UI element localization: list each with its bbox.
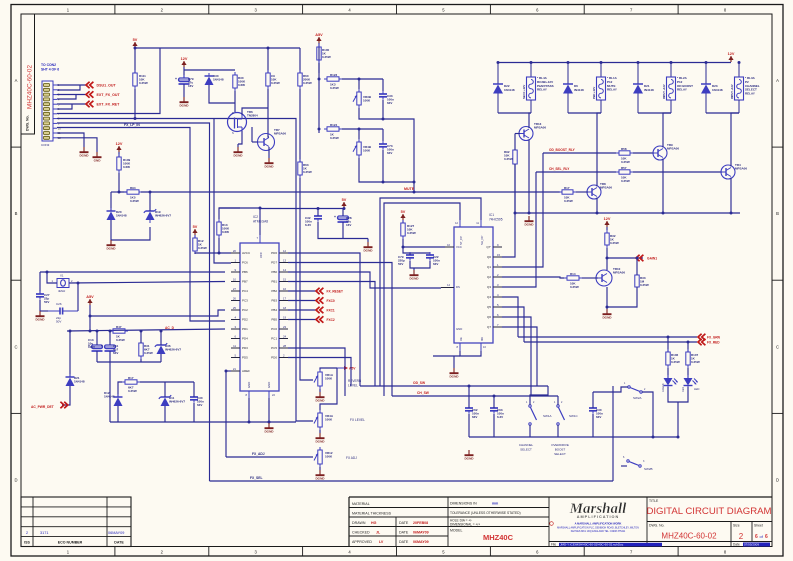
trimmer VR4B 100K — [353, 139, 372, 158]
svg-text:OE: OE — [459, 337, 463, 341]
wire C33 top — [382, 79, 384, 91]
power 5V at R12 — [192, 225, 197, 235]
resistor R58 — [616, 147, 633, 164]
svg-text:A: A — [15, 78, 18, 83]
wire CON3 bus to IC2 PC6 — [214, 119, 231, 264]
wire R111 to bus — [134, 89, 136, 119]
svg-text:FX_SEL: FX_SEL — [250, 476, 262, 480]
wire CON3 pin7 to bus riser — [57, 48, 160, 114]
resistor R92 — [504, 147, 517, 167]
label FX LEVEL — [350, 418, 365, 422]
port GAIN1 — [636, 255, 657, 261]
wire 5V to R12 — [194, 235, 196, 238]
svg-text:ISS: ISS — [24, 541, 30, 545]
svg-text:1N4148: 1N4148 — [213, 77, 224, 81]
junction relay bus — [670, 61, 673, 64]
relay RL1A with diode D6 — [563, 63, 618, 114]
svg-text:SW2A: SW2A — [633, 396, 642, 400]
power 5V at IC1 — [400, 210, 405, 220]
power A5V at AC detect — [86, 295, 94, 305]
svg-text:MPSA06: MPSA06 — [274, 131, 286, 135]
svg-text:A5V: A5V — [86, 295, 94, 299]
diode D20 1N4148 — [107, 208, 127, 223]
wire emitter ground bus — [515, 212, 740, 214]
wire R106 to LED1 — [667, 368, 669, 378]
wire C30b bottom — [592, 414, 594, 437]
svg-text:100K: 100K — [363, 98, 371, 102]
svg-text:SW2B: SW2B — [644, 467, 653, 471]
LED LED1 green — [662, 375, 678, 392]
wire R30 bottom to TR6 gate — [234, 91, 236, 112]
junction emitter bus — [528, 212, 531, 215]
wire C26 to gnd node — [40, 310, 48, 312]
svg-text:DWG. No.: DWG. No. — [26, 115, 30, 131]
connector CON3 (12-way) — [42, 81, 61, 141]
diode D21 1N4148 — [66, 374, 85, 389]
svg-text:PB1: PB1 — [271, 280, 277, 284]
svg-text:0.25W: 0.25W — [130, 199, 139, 203]
ground DGND at IC2 decoupling — [363, 242, 373, 253]
wire CON3 pin12 to GND — [57, 138, 97, 152]
svg-text:0.25W: 0.25W — [144, 351, 153, 355]
svg-text:0.25W: 0.25W — [303, 170, 312, 174]
port AC_PWR_DET — [31, 402, 68, 409]
svg-text:PD4: PD4 — [242, 337, 248, 341]
capacitor C28 47u — [334, 213, 352, 227]
ground DGND below VR12 — [315, 470, 325, 481]
ground DGND below IC1 — [449, 368, 459, 379]
ground DGND at emitter bus — [524, 216, 534, 227]
junction emitter bus — [662, 212, 665, 215]
svg-text:PED +12V: PED +12V — [592, 87, 596, 99]
svg-text:1N4148: 1N4148 — [504, 88, 515, 92]
svg-text:Q4: Q4 — [487, 295, 491, 299]
svg-text:20: 20 — [233, 249, 237, 253]
junction VR4B top — [358, 128, 361, 131]
svg-text:Q6: Q6 — [487, 315, 491, 319]
svg-text:14: 14 — [283, 268, 287, 272]
wire R33 top — [636, 258, 638, 275]
svg-text:18: 18 — [283, 306, 287, 310]
resistor R124 — [324, 123, 342, 140]
svg-text:DGND: DGND — [315, 440, 325, 444]
label CON3 — [41, 143, 50, 147]
junction relay bus — [637, 61, 640, 64]
junction R94 out — [149, 191, 152, 194]
wire caps gnd rail — [410, 261, 430, 268]
svg-text:63V: 63V — [387, 101, 392, 105]
wire VCC rail to caps — [260, 208, 344, 210]
junction A5V node R123 — [318, 78, 321, 81]
wire GAIN1 wire — [607, 257, 643, 259]
wire C63 bottom — [493, 414, 495, 437]
transistor TR4 MPSA06 — [721, 163, 747, 179]
svg-text:DGND: DGND — [464, 457, 474, 461]
svg-text:0.25W: 0.25W — [691, 360, 700, 364]
svg-text:50V: 50V — [56, 319, 61, 323]
transistor TR6 TN2804 — [228, 110, 259, 135]
net label FX_ADJ — [252, 452, 265, 456]
svg-text:VCC: VCC — [456, 245, 462, 249]
svg-text:DIMENSIONS IN: DIMENSIONS IN — [450, 502, 477, 506]
svg-text:+: + — [334, 215, 336, 219]
wire C11 bottom — [109, 351, 111, 362]
svg-text:AC_D: AC_D — [165, 326, 175, 330]
svg-text:06MAY09: 06MAY09 — [413, 540, 429, 544]
zener D19 IN4626-6V7 — [144, 208, 172, 223]
svg-text:Date: Date — [733, 543, 740, 547]
svg-text:3171: 3171 — [40, 531, 48, 535]
svg-text:GND: GND — [247, 382, 251, 388]
svg-text:IN4148: IN4148 — [644, 88, 654, 92]
svg-text:SW1C: SW1C — [569, 414, 579, 418]
svg-text:SELECT: SELECT — [520, 448, 532, 452]
svg-text:DATE: DATE — [114, 541, 124, 545]
capacitor C73 — [379, 141, 394, 155]
power 12V mid-left — [116, 142, 123, 152]
wire R17 to TR8 base — [576, 191, 588, 193]
wire TR6 drain up — [242, 108, 268, 115]
wire OD_BOOST line — [543, 152, 616, 154]
svg-text:MUTE: MUTE — [404, 187, 415, 191]
power 5V at IC2 decoupling — [341, 198, 346, 208]
net label CH_SEL_RLY — [549, 167, 570, 171]
svg-text:Q7: Q7 — [487, 325, 491, 329]
wire R17a left — [118, 382, 122, 397]
wire VR4A top — [320, 368, 337, 410]
wire long link PD5 — [288, 358, 351, 387]
wire SW2A riser — [612, 386, 614, 481]
svg-text:AMPLIFICATION: AMPLIFICATION — [577, 515, 619, 519]
svg-text:TITLE: TITLE — [649, 499, 659, 503]
wire SW2A right — [642, 392, 653, 437]
wire LED commons — [668, 387, 688, 402]
svg-text:IN4626-6V7: IN4626-6V7 — [165, 347, 181, 351]
svg-text:R57: R57 — [621, 166, 627, 170]
trimmer VR1A 100K — [314, 369, 334, 389]
svg-text:SELECT: SELECT — [554, 452, 566, 456]
resistor R123 — [324, 73, 342, 90]
capacitor C30b 100n — [589, 405, 603, 419]
wire IC2 GND pin8 drop — [248, 398, 250, 422]
svg-text:C26: C26 — [56, 302, 62, 306]
resistor R17 — [559, 186, 576, 203]
wire C28 top — [342, 209, 344, 217]
wire TR10 emitter — [606, 287, 608, 309]
junction R111 bus — [134, 117, 137, 120]
wire AREF stub — [226, 370, 231, 372]
wire CH_SW line — [392, 395, 558, 397]
relay RL2A with diode D21b — [633, 63, 693, 114]
wire A5V port riser — [320, 368, 337, 370]
svg-text:EXT_FX_RET: EXT_FX_RET — [97, 103, 121, 107]
svg-text:AC_PWR_DET: AC_PWR_DET — [31, 405, 54, 409]
svg-text:63V: 63V — [472, 415, 477, 419]
junction relay bus — [705, 61, 708, 64]
svg-text:DATE: DATE — [399, 540, 409, 544]
net label FX_SEL — [250, 476, 262, 480]
svg-text:0.6W: 0.6W — [123, 165, 130, 169]
wire R100 to R123/R124 node — [318, 63, 320, 133]
svg-text:FX ADJ: FX ADJ — [346, 456, 357, 460]
svg-text:PB0: PB0 — [271, 270, 277, 274]
capacitor C11 4u7 — [101, 342, 119, 355]
capacitor C79 47u 16V — [175, 75, 194, 88]
junction filter/MUTE — [413, 191, 416, 194]
svg-text:100K: 100K — [325, 376, 333, 380]
junction AC_D C13 — [96, 330, 99, 333]
relay RL3A with diode D23 — [701, 63, 760, 114]
svg-text:MATERIAL THICKNESS: MATERIAL THICKNESS — [352, 512, 392, 516]
zener D36 IN4626 — [155, 342, 182, 357]
svg-text:0.25W: 0.25W — [116, 338, 125, 342]
svg-text:26: 26 — [233, 297, 237, 301]
wire D20 to DGND rail — [111, 220, 150, 240]
wire caps to DGND — [413, 268, 415, 270]
wire TR13 collector to RL4A — [529, 113, 531, 128]
wire D12 bottom — [117, 406, 119, 422]
svg-text:R123: R123 — [330, 73, 338, 77]
wire LED1 feed — [667, 337, 669, 352]
svg-text:5V: 5V — [193, 225, 198, 229]
wire TR7 base — [252, 141, 258, 143]
junction AC_D R31 — [140, 330, 143, 333]
svg-text:24: 24 — [283, 335, 287, 339]
svg-text:SECO +12V: SECO +12V — [522, 85, 526, 99]
wire C30a bottom — [193, 403, 195, 422]
svg-text:FX LEVEL: FX LEVEL — [350, 418, 365, 422]
label FX ADJ — [346, 456, 357, 460]
wire C28 bottom — [342, 222, 344, 239]
junction 5V cap rail — [343, 207, 346, 210]
ground DGND below VR1A — [315, 392, 325, 403]
ground DGND at switch bus — [464, 450, 474, 461]
svg-text:06MAY09: 06MAY09 — [108, 531, 124, 535]
svg-text:IN4148: IN4148 — [574, 88, 584, 92]
wire R14 to TR10 base — [582, 277, 598, 279]
svg-text:DS: DS — [456, 285, 460, 289]
wire IC1 latch up-left — [380, 198, 481, 386]
switch SW2A — [624, 382, 646, 400]
resistor R14 — [564, 272, 582, 289]
svg-text:DIMENSIONAL = +/+: DIMENSIONAL = +/+ — [450, 523, 480, 527]
wire Q7 route to OD_SW — [502, 327, 537, 386]
ground DGND below TR6 — [233, 147, 243, 158]
ground DGND below C79 — [179, 97, 189, 108]
svg-text:SW1A: SW1A — [543, 414, 552, 418]
wire R127 to VCC — [403, 239, 445, 247]
wire caps bottom rail — [318, 222, 368, 239]
svg-text:B: B — [15, 211, 18, 216]
svg-text:RED: RED — [682, 387, 685, 392]
svg-text:PD5: PD5 — [242, 356, 248, 360]
ground DGND below CON3 — [79, 147, 89, 158]
wire IC1 OE/MR join — [460, 351, 481, 356]
svg-text:PB3: PB3 — [271, 299, 277, 303]
svg-text:28: 28 — [283, 344, 287, 348]
svg-text:27: 27 — [233, 287, 237, 291]
junction AC_D D36 — [160, 330, 163, 333]
wire TR7 emitter down — [268, 147, 270, 158]
wire C62 top — [468, 386, 470, 408]
svg-text:DGND: DGND — [524, 223, 534, 227]
junction AC_D/D21 — [69, 330, 72, 333]
svg-text:+: + — [101, 344, 103, 348]
svg-text:LED: LED — [694, 387, 699, 391]
wire R9 to TR7 collector — [268, 89, 269, 137]
svg-text:0.25W: 0.25W — [570, 285, 579, 289]
resistor R63 — [298, 159, 312, 178]
wire VR12 to DGND — [319, 467, 321, 470]
wire C30b link — [593, 391, 613, 393]
junction AC_D C11 — [109, 330, 112, 333]
wire TR9 emitter — [662, 159, 664, 214]
svg-text:DGND: DGND — [409, 277, 419, 281]
port FXC1 — [316, 307, 335, 313]
wire TR9 collector to RL2A — [663, 113, 671, 148]
svg-text:DGND: DGND — [79, 154, 89, 158]
svg-text:+: + — [175, 77, 177, 81]
wire top rail to R9 — [267, 48, 269, 73]
port FX_GRN — [698, 334, 721, 340]
net label CH_SW — [417, 391, 430, 395]
transistor TR8 MPSA06 — [587, 182, 612, 199]
svg-text:PC2: PC2 — [242, 308, 248, 312]
junction CH_SW/C63 — [493, 395, 496, 398]
wire CON3 pin5 to EXT_FX_RET port — [57, 103, 86, 105]
wire D21 to AC_PWR_DET — [62, 386, 70, 405]
svg-text:DSU1_OUT: DSU1_OUT — [97, 84, 117, 88]
svg-text:INPUT +12V: INPUT +12V — [730, 84, 734, 99]
wire D20 riser — [110, 192, 112, 211]
wire R31 bottom — [140, 359, 142, 362]
resistor R100 — [317, 44, 331, 63]
svg-text:MPSA06: MPSA06 — [735, 166, 747, 170]
wire IC2 to FX_RESET — [288, 290, 316, 292]
wire Q5 route to FX_RED — [502, 307, 524, 342]
capacitor C13 10u — [88, 338, 103, 354]
net label OD_BOOST_RLY — [549, 148, 576, 152]
capacitor C32 100n — [305, 213, 322, 227]
svg-text:74HC595: 74HC595 — [489, 218, 503, 222]
svg-text:DGND: DGND — [449, 375, 459, 379]
svg-text:A5V: A5V — [315, 33, 323, 37]
svg-text:20FEB08: 20FEB08 — [413, 521, 428, 525]
svg-text:AREF: AREF — [242, 369, 250, 373]
wire SW1A top — [530, 386, 548, 405]
svg-text:IN4626-6V7: IN4626-6V7 — [155, 213, 171, 217]
svg-text:PC5: PC5 — [271, 346, 277, 350]
svg-text:50V: 50V — [44, 300, 49, 304]
junction emitter bus — [514, 212, 517, 215]
svg-text:PC6: PC6 — [242, 261, 248, 265]
svg-text:R94: R94 — [130, 186, 136, 190]
svg-text:DATE: DATE — [399, 521, 409, 525]
wire SW1C bottom — [557, 425, 559, 437]
svg-text:R47: R47 — [116, 325, 122, 329]
svg-text:CHECKED: CHECKED — [352, 531, 370, 535]
wire R33 bottom — [607, 287, 637, 307]
svg-text:12V: 12V — [604, 217, 611, 221]
junction FX_RED tap — [687, 341, 690, 344]
title block with Marshall logo and drawing data — [349, 497, 772, 547]
port FX_RED — [698, 339, 720, 345]
svg-text:KEYNES MK1 1DQ ENGLAND TEL: 01: KEYNES MK1 1DQ ENGLAND TEL: 01908 375411 — [571, 530, 626, 533]
svg-text:ST_CP: ST_CP — [459, 236, 463, 245]
svg-text:C: C — [14, 344, 17, 349]
svg-text:GREEN: GREEN — [662, 383, 665, 392]
wire switch gnd bus — [469, 436, 678, 438]
wire IC2 to FXC2 — [288, 319, 316, 321]
svg-text:MHZ40C-60-02: MHZ40C-60-02 — [27, 65, 34, 109]
svg-text:MPSA06: MPSA06 — [534, 125, 546, 129]
svg-text:Q5: Q5 — [487, 305, 491, 309]
crystal X1 4MHz — [52, 274, 74, 294]
svg-text:DGND: DGND — [179, 104, 189, 108]
wire FX_ADJ riser — [225, 371, 227, 457]
svg-text:FXC0: FXC0 — [327, 299, 335, 303]
wire XTAL1 to IC2 PB6 — [40, 271, 225, 273]
resistor R31 — [139, 340, 153, 359]
svg-text:1N4148: 1N4148 — [712, 88, 723, 92]
wire OD riser from Q1 — [502, 153, 543, 267]
junction TR10 emitter rail — [606, 306, 609, 309]
resistor R32 — [605, 230, 619, 248]
svg-text:PB5: PB5 — [271, 318, 277, 322]
wire SW1C top — [557, 396, 559, 405]
capacitor C22 100n — [426, 252, 440, 266]
svg-text:63V: 63V — [197, 403, 202, 407]
svg-text:MPSA06: MPSA06 — [667, 146, 679, 150]
svg-text:MPSA06: MPSA06 — [600, 185, 612, 189]
svg-text:ECO NUMBER: ECO NUMBER — [58, 541, 83, 545]
ground DGND below C27 — [35, 311, 45, 322]
wire long link PD0 — [288, 348, 345, 396]
svg-text:PD0: PD0 — [271, 356, 277, 360]
svg-text:4MHz: 4MHz — [58, 289, 66, 293]
svg-text:Q1: Q1 — [487, 265, 491, 269]
resistor R109 — [117, 154, 131, 173]
svg-text:IC1: IC1 — [489, 213, 494, 217]
svg-text:DIGITAL CIRCUIT DIAGRAM: DIGITAL CIRCUIT DIAGRAM — [646, 506, 771, 517]
svg-text:CON3: CON3 — [41, 143, 50, 147]
resistor R57 — [616, 166, 633, 183]
svg-text:DGND: DGND — [264, 165, 274, 169]
svg-text:CH_SEL_RLY: CH_SEL_RLY — [549, 167, 570, 171]
junction IC1 VCC node — [402, 246, 405, 249]
capacitor C30 100n — [190, 394, 204, 407]
svg-text:SHT 4 OF 6: SHT 4 OF 6 — [41, 68, 59, 72]
wire SW1A bottom — [529, 425, 531, 437]
wire IC1 gnd drop — [453, 356, 455, 368]
junction R94/D20 — [118, 191, 121, 194]
svg-text:23: 23 — [283, 325, 287, 329]
svg-text:DGND: DGND — [315, 399, 325, 403]
svg-text:15: 15 — [497, 253, 501, 257]
svg-text:12: 12 — [283, 249, 287, 253]
junction relay bus — [738, 61, 741, 64]
capacitor C79b 220p — [398, 252, 414, 266]
diode D30 1N4148 — [205, 73, 224, 88]
wire bus riser to FX_SEL — [209, 380, 211, 481]
svg-text:IC2: IC2 — [253, 215, 258, 219]
wire SW2A left — [613, 387, 628, 392]
wire D11 top — [164, 382, 166, 397]
svg-text:DGND: DGND — [363, 249, 373, 253]
wire D36 bottom — [160, 354, 162, 362]
svg-text:6: 6 — [765, 534, 768, 540]
svg-text:FX_GRN: FX_GRN — [707, 336, 721, 340]
